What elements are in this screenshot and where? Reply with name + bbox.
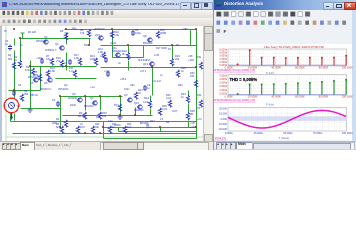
right title bar xyxy=(214,0,356,10)
svg-text:600: 600 xyxy=(8,58,13,61)
svg-text:Q5: Q5 xyxy=(30,82,34,85)
wire v17b xyxy=(150,109,152,116)
svg-text:1.8k: 1.8k xyxy=(50,69,56,73)
transistor Q9 xyxy=(77,98,82,102)
svg-text:C2: C2 xyxy=(52,98,56,102)
svg-text:10.000: 10.000 xyxy=(219,112,227,116)
capacitor C6 xyxy=(40,58,44,64)
junction xyxy=(84,132,86,134)
svg-text:R4 1k8: R4 1k8 xyxy=(28,31,37,34)
svg-text:60.000K: 60.000K xyxy=(295,65,305,69)
wire right rail xyxy=(196,30,198,128)
resistor R21 xyxy=(118,104,121,111)
svg-text:-20.000: -20.000 xyxy=(218,127,227,131)
resistor R5 xyxy=(38,74,41,81)
svg-text:75.000u: 75.000u xyxy=(313,131,323,135)
svg-text:R27: R27 xyxy=(150,120,155,123)
svg-text:60.000K: 60.000K xyxy=(295,95,305,99)
wire v7 xyxy=(128,46,130,53)
wire fb rightmost xyxy=(196,128,198,139)
wire v10b xyxy=(172,67,174,68)
junction xyxy=(29,65,31,67)
wire v10 xyxy=(172,46,174,59)
svg-text:x2: x2 xyxy=(160,74,163,77)
wire v1 xyxy=(14,39,16,46)
svg-text:25.000u: 25.000u xyxy=(254,131,264,135)
svg-text:39k: 39k xyxy=(24,92,29,96)
svg-text:T (Secs): T (Secs) xyxy=(279,136,290,140)
svg-text:R31: R31 xyxy=(197,56,202,59)
svg-text:20k: 20k xyxy=(175,57,180,61)
resistor R41 xyxy=(60,126,63,133)
svg-text:150: 150 xyxy=(190,75,195,78)
svg-text:40.000K: 40.000K xyxy=(271,65,281,69)
right toolbars xyxy=(214,10,356,45)
junction xyxy=(99,95,101,97)
left toolbars xyxy=(0,10,213,19)
arrow below V1 xyxy=(10,113,13,119)
svg-text:Q14: Q14 xyxy=(146,126,151,129)
svg-text:OUT: OUT xyxy=(172,110,178,113)
left title bar xyxy=(0,0,213,10)
transistor Q13 xyxy=(149,62,154,66)
svg-text:+VR: +VR xyxy=(190,122,195,125)
svg-text:Q3: Q3 xyxy=(124,93,128,97)
junction xyxy=(88,44,90,46)
svg-text:4.000k: 4.000k xyxy=(219,77,227,81)
junction xyxy=(102,126,104,128)
svg-text:100n: 100n xyxy=(124,88,130,91)
svg-text:D1: D1 xyxy=(168,48,172,51)
resistor R3 xyxy=(64,33,67,40)
capacitor C5 xyxy=(104,57,108,63)
resistor R30 xyxy=(194,80,197,87)
transistor Q4 xyxy=(43,40,48,44)
svg-text:1.8k: 1.8k xyxy=(98,50,104,54)
svg-text:100.000K: 100.000K xyxy=(342,95,353,99)
svg-text:10: 10 xyxy=(138,92,141,95)
wire lower rail 2 xyxy=(11,121,197,123)
svg-text:IN: IN xyxy=(4,30,7,33)
highlight ellipse over V1 xyxy=(4,98,19,113)
svg-text:4k7: 4k7 xyxy=(127,126,132,129)
resistor R43 xyxy=(91,126,94,133)
resistor R42 xyxy=(76,126,79,133)
junction xyxy=(59,95,61,97)
resistor R18 xyxy=(60,60,63,67)
svg-text:8R: 8R xyxy=(190,112,193,116)
wire fb right xyxy=(160,128,162,132)
svg-text:Q8: Q8 xyxy=(44,82,48,85)
svg-text:300R: 300R xyxy=(160,31,166,35)
svg-text:8.3k: 8.3k xyxy=(25,68,31,72)
svg-text:20.000: 20.000 xyxy=(219,106,227,110)
svg-text:R24: R24 xyxy=(144,96,149,100)
schematic vertical scrollbar xyxy=(203,26,212,141)
svg-text:F: F xyxy=(224,29,227,34)
resistor R14 xyxy=(31,68,34,75)
wire v7b xyxy=(128,61,130,71)
svg-text:C9b: C9b xyxy=(130,84,135,87)
svg-text:R33: R33 xyxy=(178,84,183,87)
wire feedback mid xyxy=(119,131,197,133)
capacitor C8 xyxy=(131,30,135,36)
resistor R7 xyxy=(50,58,53,65)
wire feedback bottom xyxy=(104,138,197,140)
resistor R45 xyxy=(123,126,126,133)
zero band xyxy=(228,116,347,121)
svg-text:THD = 0,005%: THD = 0,005% xyxy=(230,77,258,82)
svg-text:0.000: 0.000 xyxy=(221,117,228,121)
svg-text:R2: R2 xyxy=(56,118,60,121)
wire v12 xyxy=(120,97,122,116)
svg-text:MJL4281A: MJL4281A xyxy=(138,58,151,62)
svg-text:+1.2: +1.2 xyxy=(90,86,96,89)
svg-text:F (Hz): F (Hz) xyxy=(266,102,274,106)
plot 1 red stems xyxy=(237,63,239,66)
svg-text:1.000k: 1.000k xyxy=(219,88,227,92)
svg-text:100.000u: 100.000u xyxy=(342,131,353,135)
svg-text:40.000K: 40.000K xyxy=(271,95,281,99)
svg-text:C11 2n2: C11 2n2 xyxy=(152,80,162,83)
junction xyxy=(171,44,173,46)
plot 2 green stems xyxy=(237,93,239,96)
wire input h xyxy=(9,90,41,92)
svg-text:0.22: 0.22 xyxy=(162,107,168,111)
junction xyxy=(127,44,129,46)
left window: Micro-Cap schematic editor xyxy=(0,0,214,150)
capacitor C4b xyxy=(12,90,16,96)
wire mid h7 xyxy=(63,115,153,117)
svg-text:Q12: Q12 xyxy=(134,101,139,105)
wire top V+ rail xyxy=(65,29,197,31)
svg-text:R32: R32 xyxy=(197,94,202,97)
svg-text:5.000k: 5.000k xyxy=(219,73,227,77)
svg-text:Like Sony TA-F520_200hz-10kHz-: Like Sony TA-F520_200hz-10kHz-PCB.CIR xyxy=(264,45,324,49)
svg-text:Q10b: Q10b xyxy=(110,42,117,45)
svg-text:R8b 1k: R8b 1k xyxy=(30,94,39,97)
resistor R19 xyxy=(170,59,173,66)
svg-text:+57.1: +57.1 xyxy=(140,70,147,73)
svg-text:2N3440: 2N3440 xyxy=(68,96,78,100)
svg-text:+58V: +58V xyxy=(182,28,188,31)
svg-text:68: 68 xyxy=(56,126,59,129)
svg-text:48.7k: 48.7k xyxy=(78,114,85,118)
svg-text:R6b: R6b xyxy=(72,28,77,31)
svg-text:+40V: +40V xyxy=(190,126,196,129)
plot 1 frame xyxy=(228,49,347,66)
svg-text:10k: 10k xyxy=(46,57,51,61)
svg-text:1.8k: 1.8k xyxy=(74,56,80,60)
wire mid h6 xyxy=(21,108,61,110)
resistor R31 xyxy=(199,62,202,69)
wire v4 xyxy=(66,39,68,45)
svg-text:VOut (V): VOut (V) xyxy=(215,136,227,140)
svg-text:0.000u: 0.000u xyxy=(225,131,233,135)
resistor R24 xyxy=(148,101,151,108)
wire v5 xyxy=(89,39,91,46)
svg-text:Q2: Q2 xyxy=(90,96,94,100)
ground 2 xyxy=(28,109,33,113)
svg-text:+100u: +100u xyxy=(36,57,44,60)
wire v11 xyxy=(190,30,192,46)
svg-text:Rg: Rg xyxy=(8,54,12,57)
svg-text:C7: C7 xyxy=(64,62,68,65)
svg-text:THD(HARM(v(Out)),1000) (%): THD(HARM(v(Out)),1000) (%) xyxy=(214,98,255,102)
resistor R13 xyxy=(94,58,97,65)
svg-text:48.8: 48.8 xyxy=(80,126,85,129)
svg-text:39k: 39k xyxy=(95,126,100,129)
wire upper rail right xyxy=(101,45,197,47)
wire v1c xyxy=(14,114,16,121)
transistor Q5 xyxy=(33,78,38,82)
svg-text:Q8: Q8 xyxy=(143,34,147,38)
ground 3 xyxy=(118,116,123,120)
svg-text:36k: 36k xyxy=(102,114,107,118)
svg-text:4.3k: 4.3k xyxy=(114,33,120,37)
svg-text:+10u: +10u xyxy=(104,70,110,73)
wire v17 xyxy=(150,96,152,101)
resistor R16 xyxy=(156,31,159,38)
right bottom tab bar xyxy=(214,141,356,152)
resistor R26 xyxy=(168,100,171,107)
transistor Q11 xyxy=(115,53,120,57)
wire v2 xyxy=(20,39,22,61)
resistor R17 xyxy=(78,58,81,65)
transistor Q8b xyxy=(47,78,52,82)
transistor Q10 xyxy=(98,36,103,40)
resistor R9 xyxy=(83,112,86,119)
svg-text:3.000k: 3.000k xyxy=(219,81,227,85)
supply arrow 2 xyxy=(65,33,69,38)
svg-text:27k: 27k xyxy=(56,59,61,63)
junction xyxy=(59,126,61,128)
sheet border xyxy=(6,25,203,141)
svg-text:Q13: Q13 xyxy=(143,62,148,66)
junction xyxy=(84,95,86,97)
svg-text:R3: R3 xyxy=(60,29,64,33)
svg-text:C3: C3 xyxy=(18,84,22,87)
capacitor C2 xyxy=(56,101,60,107)
svg-text:0.22: 0.22 xyxy=(143,100,149,104)
svg-text:BD139C: BD139C xyxy=(140,122,149,125)
resistor R15 xyxy=(98,112,101,119)
resistor Rgen xyxy=(12,62,15,69)
junction xyxy=(119,114,121,116)
wire v1b xyxy=(14,51,16,99)
resistor R1 xyxy=(18,61,21,68)
svg-text:Q9: Q9 xyxy=(72,92,76,96)
supply arrow 1 xyxy=(21,33,25,38)
wire v18b xyxy=(188,104,190,113)
plot 3 frame xyxy=(228,108,347,132)
wire v19 xyxy=(135,108,137,116)
transistor Q8 xyxy=(147,38,152,42)
junction xyxy=(119,95,121,97)
svg-text:100p: 100p xyxy=(135,31,141,35)
svg-text:R17 300R: R17 300R xyxy=(156,47,167,50)
transistor Q7 xyxy=(59,46,64,50)
resistor R20 xyxy=(176,70,179,77)
wire v9 xyxy=(152,68,154,96)
svg-text:0.22: 0.22 xyxy=(166,97,171,100)
svg-text:BD139C: BD139C xyxy=(84,104,94,108)
sine wave xyxy=(228,110,346,128)
svg-text:50.000u: 50.000u xyxy=(283,131,293,135)
capacitor C5b xyxy=(106,71,110,77)
capacitor C9 xyxy=(143,85,147,91)
svg-text:BD140C: BD140C xyxy=(143,41,153,45)
svg-text:2N5401 C: 2N5401 C xyxy=(28,76,39,79)
resistor R32 xyxy=(199,100,202,107)
wire v15 xyxy=(85,97,87,111)
svg-text:2N5401C: 2N5401C xyxy=(58,88,69,91)
junction xyxy=(195,28,197,30)
wire mid h3 xyxy=(101,67,197,69)
wire v13 xyxy=(60,97,62,128)
wire mid h5 xyxy=(61,96,123,98)
svg-text:Q9: Q9 xyxy=(64,84,68,87)
junction xyxy=(195,66,197,68)
svg-text:Q6: Q6 xyxy=(55,42,59,46)
resistor R23 xyxy=(134,92,137,99)
wire v8 xyxy=(143,46,145,58)
transistor Q3 xyxy=(127,98,132,102)
junction xyxy=(65,28,67,30)
wire upper rail left xyxy=(21,38,91,40)
plot 2 frame xyxy=(228,75,347,96)
svg-text:VR: VR xyxy=(197,107,201,110)
svg-text:2N5401 C: 2N5401 C xyxy=(45,48,57,52)
junction xyxy=(99,132,101,134)
svg-text:BD139C: BD139C xyxy=(112,49,122,53)
svg-text:+56.4: +56.4 xyxy=(120,78,127,81)
svg-text:80.000K: 80.000K xyxy=(319,95,329,99)
svg-text:x2: x2 xyxy=(118,62,121,65)
wire fb v xyxy=(118,128,120,132)
wire v6 xyxy=(112,30,114,58)
resistor R35 xyxy=(186,113,189,120)
resistor R16b xyxy=(46,70,49,77)
svg-text:2.000k: 2.000k xyxy=(219,84,227,88)
junction xyxy=(159,126,161,128)
wire v4b xyxy=(66,53,68,71)
capacitor C7 xyxy=(68,59,72,65)
plot 2 axis xyxy=(228,94,347,96)
left horizontal scrollbar xyxy=(100,142,209,151)
svg-text:THD(HARM(v(Out)),1000) (%): THD(HARM(v(Out)),1000) (%) xyxy=(214,68,255,72)
wire v18c xyxy=(188,121,190,128)
wire bottom rail xyxy=(13,133,197,135)
resistor R22 xyxy=(126,53,129,60)
junction xyxy=(65,65,67,67)
svg-text:2N5401 C: 2N5401 C xyxy=(40,88,51,91)
svg-text:1.1k: 1.1k xyxy=(69,69,75,73)
svg-text:+58: +58 xyxy=(188,54,193,58)
svg-text:2N5401C: 2N5401C xyxy=(94,27,105,31)
wire mid h1 xyxy=(113,57,144,59)
resistor R44 xyxy=(108,126,111,133)
wire mid h4 xyxy=(56,78,97,80)
plot 1 axis xyxy=(228,64,347,66)
resistor R6 xyxy=(87,30,90,37)
svg-text:-10.000: -10.000 xyxy=(218,122,227,126)
junction xyxy=(151,66,153,68)
wire fb left xyxy=(103,122,105,139)
resistor R34 xyxy=(186,96,189,103)
svg-text:80.000K: 80.000K xyxy=(319,65,329,69)
junction xyxy=(13,89,15,91)
wire v16 xyxy=(100,97,102,111)
svg-text:+40V: +40V xyxy=(188,58,194,62)
resistor R12 xyxy=(102,52,105,59)
resistor R8 xyxy=(20,94,23,101)
svg-text:R4: R4 xyxy=(166,120,170,124)
wire mid h2 xyxy=(31,66,97,68)
svg-text:R21: R21 xyxy=(114,103,119,107)
svg-text:0.45: 0.45 xyxy=(154,54,159,57)
junction xyxy=(19,37,21,39)
svg-text:BD140C: BD140C xyxy=(134,108,144,112)
wire v20 xyxy=(10,114,12,122)
svg-text:1k: 1k xyxy=(20,44,23,47)
wire v18 xyxy=(188,91,190,96)
resistor R25 xyxy=(158,108,161,115)
transistor Q12 xyxy=(137,105,142,109)
svg-text:100.000K: 100.000K xyxy=(342,65,353,69)
schematic sheet xyxy=(2,26,203,141)
junction xyxy=(134,114,136,116)
capacitor C4 xyxy=(8,45,12,51)
right window: Distortion Analysis xyxy=(213,0,356,150)
source V1 xyxy=(9,103,15,109)
svg-text:Q10: Q10 xyxy=(95,33,100,37)
resistor R11 xyxy=(73,70,76,77)
wire v3 xyxy=(30,61,32,109)
resistor R10 xyxy=(110,31,113,38)
wire lower rail xyxy=(104,127,197,129)
junction xyxy=(13,28,15,30)
svg-text:L3: L3 xyxy=(160,117,163,121)
junction xyxy=(195,126,197,128)
wire v14 xyxy=(40,67,42,91)
svg-text:R10b: R10b xyxy=(70,104,77,107)
junction xyxy=(111,28,113,30)
svg-text:47k: 47k xyxy=(80,31,85,35)
svg-text:100k: 100k xyxy=(90,57,96,61)
transistor Q2 xyxy=(92,101,97,105)
plot client area xyxy=(214,44,352,141)
left bottom tab bar xyxy=(0,141,213,151)
svg-text:+4.9: +4.9 xyxy=(197,118,202,121)
resistor R2b xyxy=(64,120,67,127)
